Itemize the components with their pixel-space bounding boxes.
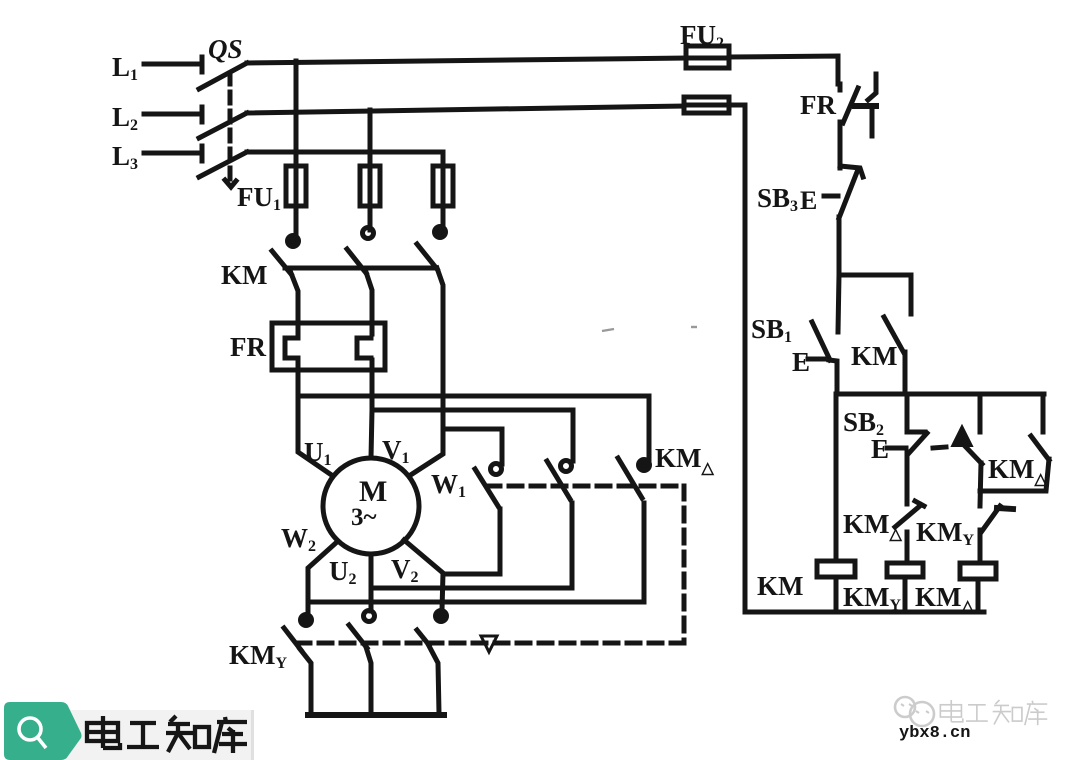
svg-text:E: E bbox=[871, 434, 889, 464]
svg-text:KM: KM bbox=[851, 341, 898, 371]
svg-text:KM△: KM△ bbox=[655, 443, 715, 477]
svg-text:QS: QS bbox=[208, 34, 243, 64]
svg-text:W1: W1 bbox=[431, 469, 466, 501]
svg-text:FU2: FU2 bbox=[680, 20, 724, 52]
svg-text:L2: L2 bbox=[112, 102, 138, 134]
svg-text:U1: U1 bbox=[304, 437, 332, 469]
svg-text:W2: W2 bbox=[281, 523, 316, 555]
svg-text:SB3E: SB3E bbox=[757, 183, 817, 215]
svg-text:E: E bbox=[792, 347, 810, 377]
svg-text:FU1: FU1 bbox=[237, 182, 281, 214]
svg-text:FR: FR bbox=[800, 90, 836, 120]
svg-text:KMY: KMY bbox=[916, 517, 975, 549]
svg-text:KM△: KM△ bbox=[988, 454, 1048, 488]
svg-text:L3: L3 bbox=[112, 141, 138, 173]
svg-text:KM△: KM△ bbox=[915, 582, 975, 615]
svg-text:KM: KM bbox=[221, 260, 268, 290]
svg-text:L1: L1 bbox=[112, 52, 138, 84]
svg-text:U2: U2 bbox=[329, 556, 357, 588]
svg-text:KM: KM bbox=[757, 571, 804, 601]
svg-text:KMY: KMY bbox=[843, 582, 902, 614]
svg-text:ybx8.cn: ybx8.cn bbox=[899, 724, 970, 743]
svg-text:SB1: SB1 bbox=[751, 314, 792, 346]
svg-text:FR: FR bbox=[230, 332, 266, 362]
svg-text:KMY: KMY bbox=[229, 640, 288, 672]
svg-text:V1: V1 bbox=[382, 435, 410, 467]
svg-text:3~: 3~ bbox=[351, 504, 377, 531]
svg-text:KM△: KM△ bbox=[843, 509, 903, 543]
svg-text:V2: V2 bbox=[391, 554, 419, 586]
